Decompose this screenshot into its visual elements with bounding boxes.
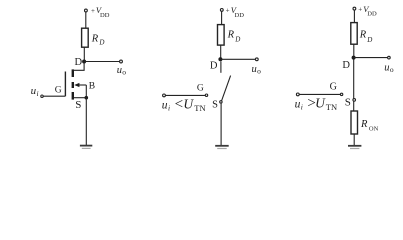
resistor RD circuit c xyxy=(351,23,357,45)
wire D to drain circuit a xyxy=(74,62,84,71)
resistor RON circuit c xyxy=(351,111,358,134)
gate end circle circuit c xyxy=(340,93,342,95)
wire D to uo terminal circuit b xyxy=(220,58,255,60)
svg-text:G: G xyxy=(55,85,62,95)
label +VDD circuit b xyxy=(226,5,245,19)
label ui&gt;UTN circuit c xyxy=(295,96,338,112)
svg-text:U: U xyxy=(183,97,194,112)
wire D to uo terminal circuit a xyxy=(84,61,120,63)
wire D to uo terminal circuit c xyxy=(354,57,388,59)
wire ui to gate circuit a xyxy=(43,95,65,97)
terminal uo circuit c xyxy=(388,56,391,59)
NMOS Q drain bar circuit a xyxy=(72,69,74,77)
wire ui to G circuit c xyxy=(299,93,340,95)
wire VDD to RD circuit c xyxy=(353,10,355,23)
svg-text:u: u xyxy=(295,98,301,110)
svg-text:R: R xyxy=(359,30,367,41)
gate end circle circuit b xyxy=(205,94,207,96)
svg-text:R: R xyxy=(91,33,99,44)
terminal ui circuit a xyxy=(41,95,43,97)
label uo circuit c xyxy=(384,62,394,74)
svg-text:R: R xyxy=(227,29,235,40)
wire RD to node D circuit a xyxy=(83,47,85,61)
svg-text:D: D xyxy=(342,60,350,71)
svg-text:ON: ON xyxy=(369,125,379,132)
svg-text:R: R xyxy=(360,119,368,130)
svg-text:G: G xyxy=(197,83,204,93)
svg-text:o: o xyxy=(257,66,261,75)
bulk arrow circuit a xyxy=(74,83,86,87)
svg-text:u: u xyxy=(252,64,257,75)
node D dot circuit a xyxy=(82,60,86,64)
label uo circuit a xyxy=(117,65,127,77)
svg-text:D: D xyxy=(98,38,104,46)
junction dot S circuit a xyxy=(85,96,89,100)
svg-text:i: i xyxy=(168,103,170,112)
switch contact S circle circuit c xyxy=(353,99,356,102)
svg-text:S: S xyxy=(212,100,218,111)
svg-text:i: i xyxy=(37,89,39,98)
label +VDD circuit a xyxy=(91,5,110,19)
NMOS Q source bar circuit a xyxy=(72,92,74,100)
svg-text:TN: TN xyxy=(326,102,337,112)
node D dot circuit b xyxy=(218,57,222,61)
svg-text:u: u xyxy=(117,65,122,76)
svg-text:D: D xyxy=(210,61,218,72)
svg-text:D: D xyxy=(75,57,83,68)
svg-text:DD: DD xyxy=(100,12,110,19)
svg-text:TN: TN xyxy=(194,103,205,113)
label RON circuit c xyxy=(360,119,379,133)
svg-text:u: u xyxy=(384,62,389,73)
svg-text:<: < xyxy=(175,97,183,113)
NMOS Q gate bar circuit a xyxy=(64,72,66,97)
svg-text:U: U xyxy=(315,96,326,111)
label ui circuit a xyxy=(31,85,39,98)
wire RON to ground circuit c xyxy=(353,134,355,145)
label RD circuit c xyxy=(359,30,373,44)
svg-text:i: i xyxy=(301,102,303,111)
svg-text:S: S xyxy=(75,99,81,111)
wire RD to node D circuit b xyxy=(220,45,222,59)
terminal +VDD circuit c xyxy=(353,7,356,10)
ground circuit b xyxy=(215,146,229,149)
resistor RD circuit b xyxy=(218,25,225,45)
switch contact S circle circuit b xyxy=(220,101,222,103)
label +VDD circuit c xyxy=(358,4,377,18)
wire VDD to RD circuit b xyxy=(221,11,223,24)
svg-text:o: o xyxy=(390,65,394,74)
label ui&lt;UTN circuit b xyxy=(162,97,206,113)
wire S to ground circuit b xyxy=(220,103,222,145)
label RD circuit a xyxy=(91,33,105,46)
svg-text:DD: DD xyxy=(235,12,245,19)
source lead circuit a xyxy=(74,97,86,99)
svg-text:+: + xyxy=(226,6,230,14)
ground circuit c xyxy=(348,146,361,149)
wire source to ground circuit a xyxy=(85,98,87,145)
switch blade circuit b xyxy=(222,76,231,101)
svg-text:S: S xyxy=(345,97,351,109)
wire ui to G circuit b xyxy=(165,94,205,96)
svg-text:D: D xyxy=(234,36,240,44)
svg-text:DD: DD xyxy=(367,11,377,18)
wire RD to node D circuit c xyxy=(353,44,355,57)
svg-text:u: u xyxy=(162,99,168,111)
terminal +VDD circuit a xyxy=(85,9,88,12)
node D dot circuit c xyxy=(352,56,356,60)
terminal ui circuit b xyxy=(163,94,166,97)
terminal +VDD circuit b xyxy=(220,9,223,12)
wire VDD to RD circuit a xyxy=(85,12,87,28)
wire D to switch stub circuit b xyxy=(220,61,222,73)
terminal uo circuit a xyxy=(120,60,123,63)
label RD circuit b xyxy=(227,29,241,43)
terminal ui circuit c xyxy=(296,93,299,96)
wire D through S to RON circuit c xyxy=(353,60,355,112)
label uo circuit b xyxy=(252,64,262,76)
ground circuit a xyxy=(80,146,92,149)
NMOS Q bulk bar circuit a xyxy=(72,82,74,88)
svg-text:B: B xyxy=(89,81,95,91)
svg-text:+: + xyxy=(91,7,95,15)
terminal uo circuit b xyxy=(255,58,258,61)
svg-text:D: D xyxy=(366,36,372,44)
wire bulk to source circuit a xyxy=(85,85,87,98)
svg-text:+: + xyxy=(358,5,362,13)
svg-text:o: o xyxy=(122,67,126,76)
resistor RD circuit a xyxy=(82,28,89,47)
svg-text:G: G xyxy=(330,81,337,92)
